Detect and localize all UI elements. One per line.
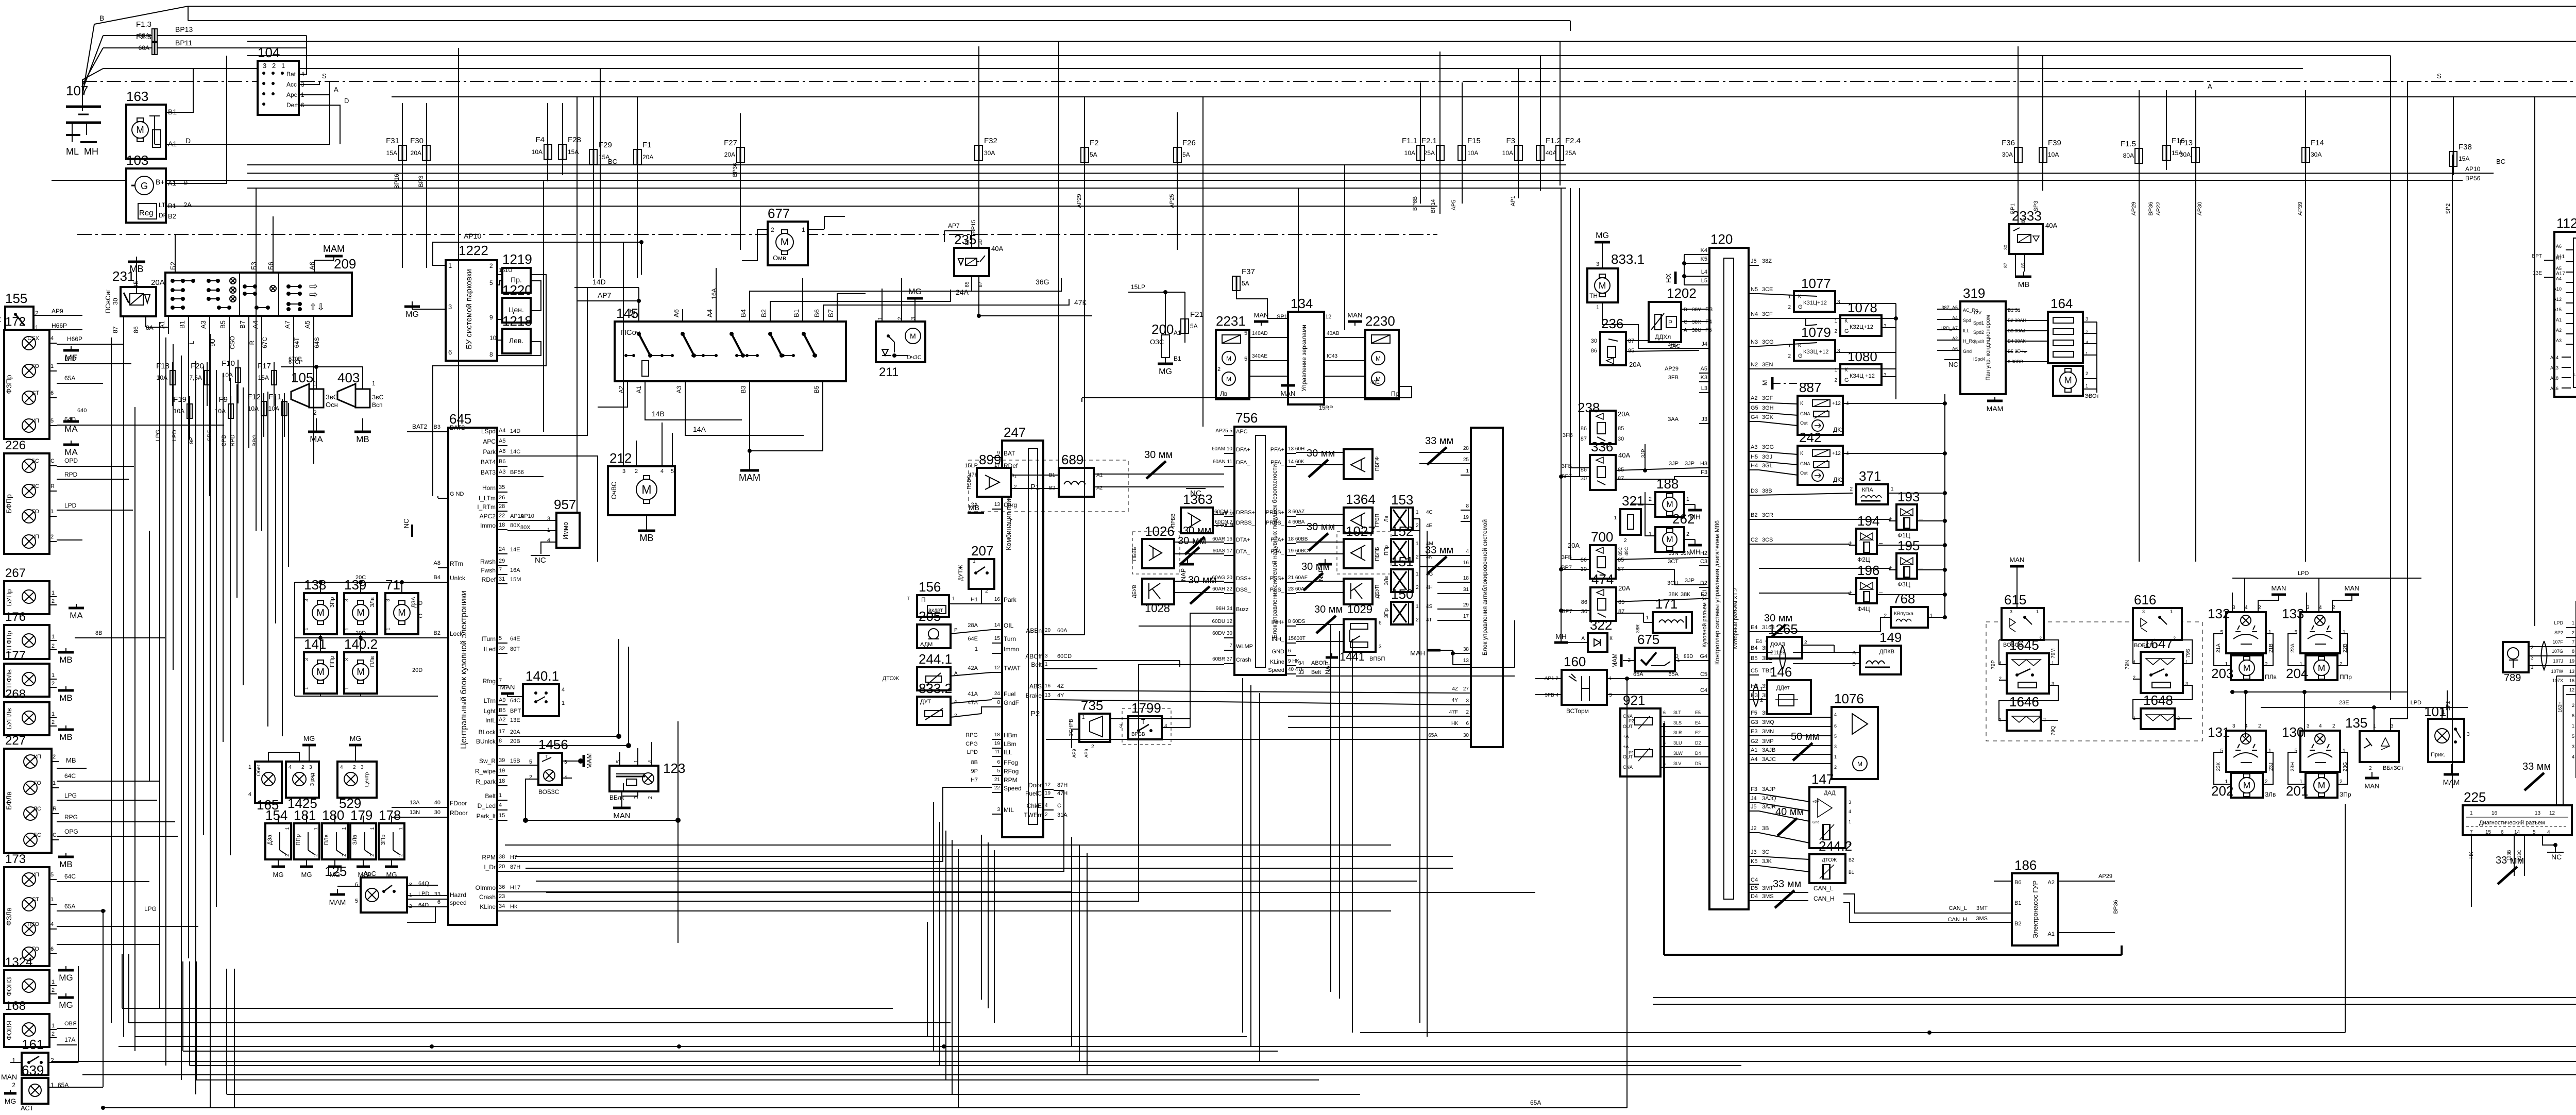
svg-text:ЗПр: ЗПр: [329, 597, 335, 608]
wire 887/242 pins: [1759, 401, 1947, 475]
svg-text:3: 3: [2232, 723, 2235, 729]
svg-text:65А: 65А: [1428, 733, 1437, 738]
svg-text:В1: В1: [1849, 870, 1854, 875]
svg-text:4: 4: [660, 468, 664, 475]
svg-text:33: 33: [1298, 670, 1304, 675]
svg-text:Лев.: Лев.: [509, 336, 523, 345]
svg-text:1219: 1219: [502, 251, 532, 267]
no-connect 645 GND: [402, 519, 412, 537]
svg-text:5: 5: [616, 760, 621, 763]
svg-text:33 мм: 33 мм: [1773, 879, 1801, 890]
svg-text:40А: 40А: [2045, 222, 2057, 229]
svg-text:В3: В3: [740, 385, 747, 393]
svg-text:179: 179: [350, 807, 372, 823]
svg-text:2: 2: [771, 226, 774, 233]
svg-text:1026: 1026: [1145, 523, 1175, 539]
svg-text:DTA+: DTA+: [1236, 537, 1250, 543]
svg-text:Цен.: Цен.: [509, 306, 524, 314]
svg-text:ЗЛв: ЗЛв: [369, 597, 376, 607]
ground MG 180: [328, 859, 342, 879]
svg-text:Bat: Bat: [286, 71, 296, 78]
svg-text:87Н: 87Н: [1057, 782, 1067, 788]
svg-text:65А: 65А: [64, 375, 75, 382]
svg-text:ВОБЗС: ВОБЗС: [538, 788, 560, 796]
svg-text:1: 1: [50, 509, 54, 515]
svg-text:3MQ: 3MQ: [1762, 719, 1774, 725]
svg-text:2: 2: [1649, 496, 1652, 502]
ground MB 177: [58, 686, 74, 703]
svg-text:1: 1: [1891, 486, 1894, 492]
svg-text:ЗПр: ЗПр: [2340, 791, 2351, 798]
svg-text:AP9: AP9: [1084, 749, 1089, 757]
no-connect 957: [531, 555, 550, 565]
svg-text:MG: MG: [301, 871, 312, 879]
svg-text:1: 1: [2036, 609, 2039, 614]
svg-text:28: 28: [1463, 446, 1469, 451]
svg-text:Sw_R: Sw_R: [479, 757, 496, 765]
svg-text:C5: C5: [1751, 668, 1758, 674]
wire mid-page long horizontals: [505, 844, 1391, 846]
wire ABS right nets: [1046, 686, 1461, 739]
svg-text:16: 16: [1463, 560, 1469, 566]
wire 675: [1623, 654, 1699, 661]
svg-text:Spd1: Spd1: [1973, 320, 1984, 326]
svg-text:3B: 3B: [1762, 825, 1769, 832]
svg-text:ПЛв: ПЛв: [369, 656, 376, 667]
svg-text:26: 26: [499, 495, 505, 501]
wire fuse net labels: [393, 72, 2505, 215]
svg-text:А2: А2: [499, 717, 505, 723]
svg-text:МАМ: МАМ: [1611, 653, 1618, 668]
ground MAN mirror-l: [1254, 311, 1269, 326]
svg-text:ПБПБ: ПБПБ: [1375, 547, 1380, 561]
wire generator B1 2A: [166, 206, 1437, 207]
svg-text:60AM 10: 60AM 10: [1212, 446, 1232, 452]
svg-text:236: 236: [1601, 316, 1623, 331]
door switch 178 ЗПр: [379, 807, 404, 859]
svg-text:ДТОЖ: ДТОЖ: [883, 675, 899, 682]
svg-text:AP22: AP22: [2156, 202, 2162, 216]
throttle body 1076: [1832, 691, 1878, 779]
svg-text:MG: MG: [59, 1000, 73, 1010]
svg-text:Лв: Лв: [1384, 516, 1389, 522]
svg-text:2: 2: [1416, 554, 1419, 560]
svg-text:40А: 40А: [1546, 149, 1556, 157]
svg-text:9: 9: [489, 314, 493, 321]
svg-text:Belt: Belt: [1031, 661, 1042, 668]
svg-text:P1: P1: [1030, 483, 1040, 492]
svg-text:CNA: CNA: [1623, 765, 1633, 770]
svg-text:1: 1: [52, 979, 55, 985]
svg-text:6: 6: [50, 946, 54, 952]
svg-text:87: 87: [2003, 263, 2008, 268]
svg-text:21 60AF: 21 60AF: [1288, 575, 1308, 581]
wire 244.2 pins: [1759, 856, 1809, 872]
svg-text:1363: 1363: [1183, 492, 1213, 507]
svg-text:3CF: 3CF: [1762, 311, 1773, 317]
twisted pair mic: [2541, 641, 2547, 670]
svg-text:G: G: [1844, 377, 1849, 383]
svg-text:NC: NC: [402, 519, 410, 529]
svg-text:Spd2: Spd2: [1973, 330, 1984, 335]
svg-text:N5: N5: [1751, 286, 1758, 293]
svg-text:5: 5: [1834, 734, 1837, 739]
svg-text:3: 3: [547, 516, 550, 522]
svg-text:29: 29: [1463, 602, 1469, 608]
svg-text:1: 1: [304, 628, 310, 631]
wire 1456: [507, 761, 572, 820]
svg-text:С: С: [1684, 319, 1687, 325]
svg-text:2: 2: [2332, 723, 2335, 729]
svg-text:196: 196: [1857, 563, 1879, 578]
svg-text:K5: K5: [1701, 256, 1707, 262]
svg-text:34: 34: [1298, 661, 1304, 666]
svg-text:Е5: Е5: [1695, 710, 1701, 715]
svg-text:ДАД: ДАД: [1824, 790, 1836, 796]
wire left column risers: [10, 909, 105, 1087]
svg-text:BP8B: BP8B: [1412, 196, 1418, 211]
wire 168 nets: [57, 1021, 77, 1045]
svg-text:5: 5: [50, 418, 54, 424]
svg-text:H5: H5: [1751, 454, 1758, 460]
svg-text:1645: 1645: [2009, 637, 2039, 653]
svg-text:6: 6: [1288, 648, 1291, 654]
svg-text:БС: БС: [33, 832, 41, 838]
svg-text:ГО: ГО: [32, 946, 39, 952]
parking sensor 1218: [502, 313, 532, 353]
ground MAN 133: [2345, 584, 2360, 598]
svg-text:RFog: RFog: [1004, 768, 1019, 775]
ground MA 172: [63, 441, 79, 457]
svg-text:H3: H3: [1751, 692, 1758, 699]
svg-text:Lght: Lght: [484, 707, 496, 715]
svg-text:20А: 20А: [1618, 584, 1630, 592]
svg-text:МВ: МВ: [969, 503, 979, 512]
svg-text:HBm: HBm: [1004, 732, 1018, 739]
svg-text:2: 2: [2086, 371, 2088, 376]
svg-text:5А: 5А: [1242, 280, 1249, 287]
svg-text:G: G: [1798, 353, 1803, 359]
belt buckle sw 1028: [1132, 579, 1174, 615]
door switch 181 ППр: [294, 807, 319, 859]
svg-text:20А: 20А: [510, 729, 520, 735]
fuse F28: [558, 136, 581, 160]
fuel module 921: [1620, 692, 1660, 776]
svg-text:3: 3: [564, 759, 567, 765]
svg-text:Rfog: Rfog: [483, 678, 496, 685]
svg-text:Ф2Ц: Ф2Ц: [1857, 556, 1870, 563]
svg-text:MAN: MAN: [2345, 584, 2360, 592]
wire 236: [1626, 340, 1649, 341]
svg-text:3CR: 3CR: [1762, 512, 1773, 518]
svg-text:3: 3: [1609, 692, 1612, 698]
ground MG 1324: [58, 993, 74, 1010]
svg-text:ITurn: ITurn: [481, 635, 496, 643]
fuse F2: [1081, 139, 1099, 162]
side airbag 1027: [1337, 523, 1391, 574]
lamp 639 brake-3: [12, 1062, 69, 1112]
svg-text:Chrg: Chrg: [1004, 501, 1017, 509]
svg-text:КПА: КПА: [1862, 487, 1873, 493]
svg-text:B: B: [99, 14, 104, 22]
svg-text:30: 30: [1591, 338, 1597, 344]
svg-text:20А: 20А: [724, 151, 735, 158]
svg-text:AP9: AP9: [1072, 749, 1077, 757]
svg-text:MAN: MAN: [1, 1073, 17, 1081]
wire bottom bundle left: [122, 954, 1741, 1108]
fuse F20: [189, 362, 210, 385]
wire 120 K-bracket: [1682, 255, 1709, 285]
wire 247 satellites: [949, 589, 992, 717]
wire top bus 5: [103, 68, 2303, 69]
svg-text:186: 186: [2014, 857, 2037, 873]
svg-text:P1: P1: [1629, 750, 1634, 755]
svg-text:TWAT: TWAT: [1004, 665, 1021, 672]
svg-text:2: 2: [1217, 366, 1221, 373]
svg-text:79М: 79М: [2050, 648, 2056, 658]
svg-text:13N: 13N: [410, 809, 420, 816]
svg-text:NC: NC: [2551, 853, 2562, 861]
squib mark DTA: [1178, 535, 1206, 565]
svg-text:3LV: 3LV: [1673, 761, 1681, 766]
svg-text:1: 1: [2268, 748, 2272, 754]
svg-text:А6: А6: [672, 309, 680, 317]
svg-text:14А: 14А: [693, 425, 706, 433]
wire top power bus BP11: [188, 6, 2576, 222]
svg-text:SP2: SP2: [2446, 701, 2451, 711]
wire 957: [507, 520, 556, 554]
svg-text:833.2: 833.2: [919, 681, 952, 696]
wire 645 left feeds: [392, 423, 438, 907]
wire 247 column drops: [981, 835, 994, 1023]
svg-text:1: 1: [2343, 748, 2346, 754]
svg-text:3: 3: [1045, 653, 1048, 659]
svg-text:BC: BC: [2496, 158, 2505, 165]
wire top bus BP11 right: [247, 41, 2576, 93]
ground MAN ABS: [1410, 649, 1461, 665]
wire small fuse cluster: [155, 356, 302, 447]
svg-text:3FB: 3FB: [1563, 432, 1573, 438]
heated rear relay 2333: [2003, 208, 2057, 268]
dashed group 899-689: [969, 460, 1128, 512]
svg-text:AP30: AP30: [2197, 202, 2203, 216]
svg-text:3JK: 3JK: [1762, 858, 1772, 865]
svg-text:10А: 10А: [1502, 149, 1513, 157]
svg-text:BP7: BP7: [1562, 609, 1572, 615]
svg-text:3AJP: 3AJP: [1762, 786, 1775, 792]
svg-text:ПТО: ПТО: [27, 921, 39, 927]
warning buzzer 735: [1069, 698, 1110, 758]
svg-text:ЗвС: ЗвС: [326, 393, 338, 401]
svg-text:14D: 14D: [592, 278, 606, 286]
wire 227 nets: [57, 756, 178, 836]
window switch 132: [2208, 605, 2274, 653]
svg-text:639: 639: [22, 1062, 44, 1078]
svg-text:P2: P2: [1629, 718, 1634, 723]
svg-text:474: 474: [1591, 571, 1614, 587]
svg-text:GNA: GNA: [1800, 411, 1810, 416]
svg-text:1: 1: [52, 672, 55, 679]
svg-text:3GF: 3GF: [1762, 395, 1773, 401]
ground MG 529: [349, 734, 362, 748]
svg-text:⇨: ⇨: [309, 289, 318, 300]
svg-text:50 мм: 50 мм: [1791, 731, 1819, 742]
svg-text:30: 30: [1618, 436, 1624, 442]
svg-text:79S: 79S: [2185, 649, 2191, 658]
no-connect 225: [2543, 835, 2564, 861]
wire 209 risers: [175, 188, 314, 496]
svg-text:J2: J2: [1751, 825, 1757, 832]
svg-text:BLock: BLock: [479, 729, 496, 736]
window motor 201: [2286, 773, 2351, 799]
svg-text:1: 1: [372, 380, 376, 387]
switch-lamp 1456: [529, 737, 568, 796]
svg-text:3MN: 3MN: [1762, 729, 1774, 735]
svg-text:ДДХл: ДДХл: [1655, 333, 1671, 341]
svg-text:КЗ1Ц+12: КЗ1Ц+12: [1803, 300, 1827, 306]
svg-text:F10: F10: [222, 359, 235, 368]
svg-text:M: M: [1666, 500, 1673, 509]
svg-text:А7: А7: [2556, 256, 2562, 261]
svg-text:3: 3: [344, 599, 350, 602]
svg-text:Р: Р: [954, 628, 958, 633]
svg-text:ДК2: ДК2: [1833, 476, 1844, 483]
fuse F36: [2002, 139, 2022, 162]
seat heat switch 616: [2133, 592, 2182, 649]
svg-text:3LR: 3LR: [1673, 730, 1682, 735]
injector relay 1078: [1834, 300, 1887, 336]
mirror control 134: [1277, 296, 1331, 404]
svg-text:21129: 21129: [1770, 650, 1786, 656]
svg-text:8В: 8В: [95, 630, 102, 636]
svg-text:Лв: Лв: [1220, 390, 1227, 397]
wire 211: [882, 278, 915, 322]
svg-text:1: 1: [1466, 468, 1469, 474]
svg-text:Fwsh: Fwsh: [481, 567, 496, 574]
svg-text:22: 22: [499, 513, 505, 519]
svg-text:64S: 64S: [313, 337, 320, 348]
svg-text:38: 38: [499, 854, 505, 860]
svg-text:30 мм: 30 мм: [1178, 535, 1206, 547]
wire injector 195: [1759, 568, 1947, 572]
svg-text:А7: А7: [283, 320, 291, 329]
svg-text:3: 3: [304, 658, 310, 661]
svg-text:Центральный блок кузовной элек: Центральный блок кузовной электроники: [460, 590, 468, 749]
svg-text:79Q: 79Q: [2050, 725, 2056, 735]
svg-text:А: А: [1684, 328, 1687, 333]
svg-text:60CD: 60CD: [1057, 653, 1072, 660]
svg-text:2: 2: [52, 598, 55, 604]
svg-text:ДК1: ДК1: [1833, 426, 1844, 433]
svg-text:МАМ: МАМ: [329, 898, 346, 906]
svg-text:30А: 30А: [2180, 151, 2191, 158]
svg-text:Прик.: Прик.: [2431, 752, 2445, 758]
phase sensor 1265: [1756, 613, 1807, 658]
svg-text:1218: 1218: [502, 313, 532, 329]
svg-text:140AD: 140AD: [1252, 331, 1268, 336]
svg-text:7: 7: [499, 567, 502, 573]
svg-text:M: M: [136, 124, 144, 135]
svg-text:8: 8: [499, 738, 502, 744]
svg-text:3LW: 3LW: [1673, 751, 1683, 756]
svg-text:BAT2: BAT2: [412, 423, 427, 430]
svg-text:AP1: AP1: [1510, 196, 1516, 207]
svg-text:40Е: 40Е: [1370, 380, 1380, 385]
svg-text:103: 103: [126, 153, 148, 168]
lamp 165: [248, 762, 282, 813]
svg-text:17: 17: [499, 729, 505, 735]
svg-text:GND: GND: [1272, 649, 1285, 655]
svg-text:3FB: 3FB: [1668, 375, 1679, 381]
svg-text:Speed: Speed: [1268, 667, 1284, 673]
svg-text:4С: 4С: [1426, 510, 1433, 515]
wire trunk verticals: [458, 48, 459, 428]
svg-text:Out: Out: [1800, 470, 1808, 476]
svg-text:1: 1: [2470, 810, 2473, 816]
svg-text:В3: В3: [434, 424, 440, 430]
svg-text:4: 4: [2547, 830, 2550, 835]
svg-text:2: 2: [370, 854, 376, 857]
svg-text:C2: C2: [1751, 537, 1758, 543]
svg-text:А2: А2: [2048, 880, 2055, 886]
svg-text:244.1: 244.1: [919, 651, 952, 667]
svg-text:173: 173: [5, 852, 26, 866]
svg-text:MG: MG: [273, 871, 284, 879]
svg-text:5: 5: [671, 468, 674, 475]
svg-text:F17: F17: [258, 362, 271, 370]
connector 1324 licence plate lamp: [4, 955, 57, 1003]
svg-text:МАМ: МАМ: [739, 472, 760, 483]
svg-text:P2: P2: [1030, 709, 1040, 718]
connector 172 right tail lamp: [4, 315, 57, 439]
svg-text:1: 1: [398, 827, 404, 830]
svg-text:MG: MG: [1596, 231, 1609, 240]
ground MA 226: [63, 408, 87, 434]
svg-text:10А: 10А: [1467, 149, 1478, 157]
fuse F2.3: [103, 32, 307, 55]
svg-text:+12: +12: [1832, 451, 1841, 457]
svg-text:M: M: [781, 236, 789, 248]
svg-text:БУПЛв: БУПЛв: [5, 708, 13, 729]
svg-text:ДУТ: ДУТ: [920, 699, 931, 705]
svg-text:CAN_L: CAN_L: [1814, 885, 1834, 892]
svg-text:1: 1: [952, 596, 955, 602]
svg-text:319: 319: [1963, 285, 1985, 301]
wire starter A1-D: [166, 81, 330, 144]
svg-text:BAT: BAT: [1004, 450, 1015, 457]
svg-text:А13: А13: [2550, 365, 2558, 370]
svg-text:G ND: G ND: [450, 491, 464, 497]
svg-text:RPG: RPG: [64, 814, 78, 821]
svg-text:154: 154: [265, 807, 287, 823]
svg-text:D2: D2: [1700, 580, 1707, 586]
svg-text:Park_lt: Park_lt: [477, 813, 496, 820]
svg-text:F11: F11: [268, 393, 281, 401]
diode 322: [1581, 617, 1613, 652]
svg-text:C: C: [53, 832, 57, 838]
svg-text:227: 227: [5, 734, 26, 748]
svg-text:ILL: ILL: [1004, 749, 1012, 756]
svg-text:171: 171: [1655, 596, 1677, 612]
svg-text:AP10: AP10: [2465, 165, 2481, 173]
svg-text:Reg: Reg: [139, 209, 154, 217]
svg-text:ОImmo: ОImmo: [476, 884, 496, 891]
svg-text:К: К: [1800, 451, 1803, 457]
svg-text:3AC: 3AC: [1669, 343, 1680, 349]
svg-text:WLMP: WLMP: [1236, 644, 1253, 650]
svg-text:9P: 9P: [189, 437, 195, 444]
svg-text:2: 2: [52, 643, 55, 649]
